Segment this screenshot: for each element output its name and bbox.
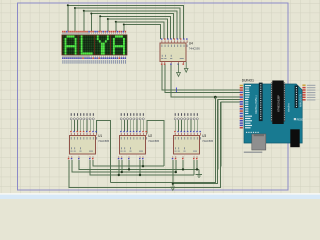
RESET label bbox=[294, 118, 296, 120]
svg-text:simulino: simulino bbox=[288, 103, 291, 112]
U2 top pin marks bbox=[120, 131, 122, 132]
U4 bottom pin marks bbox=[161, 62, 164, 64]
terminal circles above U1 bbox=[71, 113, 72, 116]
chain wire U2 Q7S to bus bbox=[147, 121, 164, 167]
board name text under USB bbox=[244, 152, 262, 153]
svg-text:U4: U4 bbox=[189, 41, 193, 45]
ground symbol left of U4 bbox=[177, 63, 181, 76]
U3 top pin marks bbox=[174, 131, 176, 132]
LED matrix display (32x8, shows ALYA) bbox=[62, 35, 127, 55]
junction at clock line bbox=[214, 96, 217, 99]
U1 body bbox=[70, 136, 96, 155]
svg-text:74HC595: 74HC595 bbox=[148, 139, 160, 143]
U4 top pin marks bbox=[161, 38, 163, 39]
shift register U1 bbox=[70, 113, 110, 154]
U4 body bbox=[160, 43, 186, 62]
svg-text:DUINO1: DUINO1 bbox=[242, 78, 254, 82]
svg-text:ATMEGA328P: ATMEGA328P bbox=[277, 95, 281, 112]
U3 bottom pin marks bbox=[171, 156, 174, 158]
matrix column net labels bbox=[62, 60, 65, 64]
chain wire U1 Q7S down to return line bbox=[97, 121, 111, 183]
shift register U3 bbox=[174, 113, 214, 154]
svg-text:RESET: RESET bbox=[297, 119, 306, 122]
digital header strip bbox=[259, 83, 263, 122]
svg-text:74HC595: 74HC595 bbox=[189, 47, 201, 51]
wire fan from matrix rows to U4 bbox=[68, 5, 184, 39]
U3 bottom pin wires bbox=[173, 160, 197, 184]
origin marker cross bbox=[174, 88, 179, 93]
data return wire along bottom bbox=[69, 97, 221, 187]
sheet border frame bbox=[18, 3, 288, 190]
shift register U2 bbox=[120, 113, 160, 154]
board body bbox=[244, 84, 302, 143]
shift register U4 bbox=[160, 38, 200, 61]
bottom bus wires from U1 bbox=[72, 160, 199, 175]
svg-text:DIGITAL (PWM~): DIGITAL (PWM~) bbox=[255, 95, 258, 114]
power pin marks and labels bbox=[240, 115, 243, 117]
power header dots bbox=[246, 132, 247, 133]
U2 body bbox=[120, 136, 146, 155]
svg-text:74HC595: 74HC595 bbox=[98, 139, 110, 143]
U1 bottom pin marks bbox=[67, 156, 70, 158]
svg-text:U1: U1 bbox=[98, 134, 102, 138]
U3 body bbox=[174, 136, 200, 155]
USB connector bbox=[252, 134, 266, 150]
analog header strip bbox=[295, 86, 299, 109]
ground symbol right of U4 bbox=[184, 62, 188, 73]
U1 top pin marks bbox=[70, 131, 72, 132]
U2 bottom pin wires bbox=[119, 160, 143, 175]
digital pin marks and labels bbox=[240, 85, 243, 87]
U2 bottom pin marks bbox=[117, 156, 120, 158]
matrix bottom pin marks bbox=[63, 55, 125, 57]
svg-text:U3: U3 bbox=[202, 134, 206, 138]
wires U4 control pins to Arduino bbox=[162, 63, 240, 97]
svg-text:74HC595: 74HC595 bbox=[202, 139, 214, 143]
terminal circles above U2 bbox=[121, 113, 122, 116]
bottom status strip bbox=[0, 193, 320, 195]
ground symbol (bottom, bar style) bbox=[198, 169, 200, 174]
DC power jack bbox=[290, 129, 299, 147]
matrix top pin marks bbox=[63, 33, 125, 35]
Arduino Uno DUINO1 bbox=[240, 78, 316, 152]
ground arrow (bottom center) bbox=[172, 184, 174, 188]
wires Arduino pins down to bottom buses bbox=[215, 97, 240, 172]
ATMEGA328P chip bbox=[271, 83, 272, 122]
analog pin marks and net labels bbox=[302, 84, 305, 86]
terminal circles above U3 bbox=[175, 113, 176, 116]
svg-text:U2: U2 bbox=[148, 134, 152, 138]
svg-text:ANALOG IN: ANALOG IN bbox=[299, 94, 302, 107]
